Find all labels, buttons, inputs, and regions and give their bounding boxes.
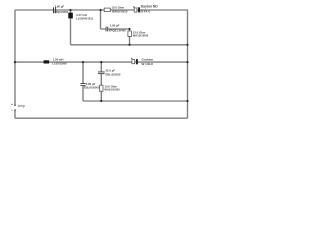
- wire top rail: [15, 9, 188, 11]
- wire 22uF + 10 ohm branch: [100, 62, 102, 101]
- wire shunt inductor branch: [70, 10, 72, 45]
- wire 6.8uF shunt branch: [82, 62, 84, 101]
- node woofer feed on left rail: [14, 61, 16, 63]
- wire right rail: [187, 10, 189, 119]
- node C4 tap on woofer rail: [100, 61, 102, 63]
- wire zobel branch vertical from node: [100, 10, 102, 29]
- resistor R1 10.0 Ohm: [104, 8, 110, 12]
- resistor R3 10.0 Ohm woofer: [100, 85, 104, 91]
- svg-text:WA10/10/05: WA10/10/05: [104, 87, 120, 91]
- svg-text:EBL/6.8/500: EBL/6.8/500: [84, 86, 100, 90]
- wire woofer return line: [83, 100, 188, 102]
- wire amp lower lead: [14, 110, 16, 118]
- svg-text:Dayton ND: Dayton ND: [141, 5, 158, 9]
- svg-text:WA05/10/10: WA05/10/10: [112, 9, 128, 13]
- node zobel tap on top rail: [100, 9, 102, 11]
- svg-text:WA12/10/05: WA12/10/05: [133, 33, 149, 37]
- wire 12 ohm resistor leads: [129, 29, 131, 45]
- svg-text:W 140-8: W 140-8: [142, 62, 154, 66]
- node R3 on woofer return line: [100, 100, 102, 102]
- svg-text:XPQS1.0/400: XPQS1.0/400: [109, 29, 127, 33]
- inductor L2 1.50 mH: [44, 60, 50, 63]
- woofer U2 Graham: [131, 58, 138, 65]
- capacitor C1 3.90 uF plates: [53, 7, 56, 13]
- svg-text:Amp: Amp: [18, 104, 25, 108]
- capacitor C2 1.00 uF plates: [106, 27, 109, 32]
- node woofer rail on right rail: [186, 61, 188, 63]
- svg-text:EBL/22/500: EBL/22/500: [106, 72, 121, 76]
- node shunt return on right rail: [186, 44, 188, 46]
- node C3 tap on woofer rail: [82, 61, 84, 63]
- svg-text:Graham: Graham: [142, 57, 154, 61]
- svg-text:3.90 µF: 3.90 µF: [55, 5, 65, 9]
- wire tweeter shunt return line: [71, 44, 188, 46]
- capacitor C3 6.80 uF plates: [80, 83, 85, 86]
- resistor R2 12.0 Ohm: [128, 31, 131, 36]
- wire left rail (amp +): [14, 10, 16, 105]
- svg-text:LL05/04/1011: LL05/04/1011: [76, 16, 94, 20]
- node L1 tap on top rail: [69, 9, 71, 11]
- svg-text:1.00 µF: 1.00 µF: [110, 24, 120, 28]
- wire woofer rail: [15, 61, 188, 63]
- inductor L1 0.47 mH: [68, 13, 73, 19]
- svg-text:XPQS15/600: XPQS15/600: [54, 11, 69, 14]
- wire bottom rail: [15, 117, 188, 119]
- node C2 to R2 corner: [128, 28, 130, 30]
- svg-text:20 FA-6: 20 FA-6: [140, 9, 150, 13]
- node R2 on shunt return line: [128, 44, 130, 46]
- wire zobel branch horizontal: [101, 28, 130, 30]
- svg-text:LL05/15/90: LL05/15/90: [52, 62, 67, 66]
- capacitor C4 22.0 uF plates: [98, 72, 105, 75]
- node woofer return on right rail: [186, 100, 188, 102]
- tweeter U1 Dayton ND: [133, 6, 140, 12]
- amp source terminals: [11, 104, 16, 111]
